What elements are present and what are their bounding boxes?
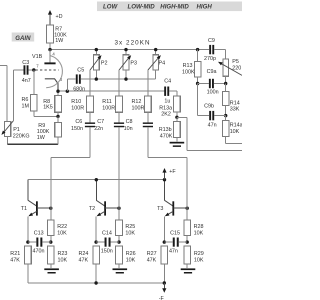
svg-text:4n7: 4n7: [22, 78, 31, 84]
svg-text:-F: -F: [159, 296, 165, 300]
svg-text:GAIN: GAIN: [15, 35, 31, 42]
svg-text:T3: T3: [157, 206, 163, 212]
svg-text:C7: C7: [97, 119, 104, 125]
svg-text:P2: P2: [101, 61, 108, 67]
svg-text:V1B: V1B: [32, 54, 43, 60]
svg-text:LOW: LOW: [103, 4, 118, 11]
svg-text:2K2: 2K2: [161, 111, 171, 117]
svg-text:1M: 1M: [22, 103, 30, 109]
svg-text:33K: 33K: [230, 107, 240, 113]
svg-text:C5: C5: [77, 68, 84, 74]
svg-text:100R: 100R: [132, 106, 145, 112]
svg-text:R26: R26: [126, 251, 136, 257]
svg-text:10n: 10n: [124, 126, 133, 132]
svg-text:10K: 10K: [194, 230, 204, 236]
svg-text:1W: 1W: [55, 38, 64, 44]
svg-text:R28: R28: [194, 224, 204, 230]
svg-text:1K5: 1K5: [43, 104, 53, 110]
svg-text:680n: 680n: [73, 86, 85, 92]
svg-text:R14: R14: [230, 100, 240, 106]
svg-text:3x 220KN: 3x 220KN: [115, 39, 151, 46]
svg-text:R11: R11: [102, 99, 112, 105]
svg-text:47K: 47K: [79, 258, 89, 264]
svg-text:HIGH: HIGH: [197, 4, 213, 11]
svg-text:R6: R6: [22, 97, 29, 103]
svg-text:10K: 10K: [58, 258, 68, 264]
svg-text:47n: 47n: [169, 249, 178, 255]
svg-text:P1: P1: [13, 127, 20, 133]
svg-text:R22: R22: [57, 224, 67, 230]
svg-text:10K: 10K: [125, 230, 135, 236]
svg-text:R21: R21: [10, 251, 20, 257]
svg-text:HIGH-MID: HIGH-MID: [160, 4, 189, 11]
svg-text:470n: 470n: [33, 249, 45, 255]
svg-text:47n: 47n: [208, 123, 217, 129]
svg-text:10K: 10K: [194, 258, 204, 264]
svg-text:P3: P3: [130, 61, 137, 67]
svg-text:100R: 100R: [71, 106, 84, 112]
svg-text:R13: R13: [183, 63, 193, 69]
svg-text:10K: 10K: [126, 258, 136, 264]
svg-text:100n: 100n: [207, 89, 219, 95]
svg-text:C4: C4: [164, 79, 171, 85]
svg-text:150n: 150n: [71, 126, 83, 132]
svg-text:C15: C15: [170, 231, 180, 237]
svg-text:10K: 10K: [57, 230, 67, 236]
svg-text:R12: R12: [132, 99, 142, 105]
svg-text:47K: 47K: [147, 258, 157, 264]
svg-text:+F: +F: [169, 169, 176, 175]
svg-text:C13: C13: [34, 231, 44, 237]
svg-text:R14a: R14a: [230, 123, 242, 129]
svg-text:22n: 22n: [94, 126, 103, 132]
svg-text:R27: R27: [147, 251, 157, 257]
svg-text:C14: C14: [102, 231, 112, 237]
svg-text:C9a: C9a: [207, 69, 217, 75]
svg-text:C8: C8: [126, 119, 133, 125]
svg-text:100R: 100R: [102, 106, 115, 112]
svg-text:R25: R25: [125, 224, 135, 230]
svg-text:C6: C6: [75, 119, 82, 125]
svg-text:P4: P4: [159, 61, 166, 67]
svg-text:C9: C9: [208, 38, 215, 44]
svg-text:T1: T1: [21, 206, 27, 212]
svg-text:LOW-MID: LOW-MID: [128, 4, 156, 11]
svg-text:220KG: 220KG: [13, 134, 30, 140]
svg-text:P5: P5: [232, 59, 239, 65]
svg-text:T2: T2: [89, 206, 95, 212]
svg-text:10K: 10K: [230, 129, 240, 135]
svg-text:R10: R10: [71, 99, 81, 105]
svg-text:R24: R24: [79, 251, 89, 257]
svg-text:270p: 270p: [204, 56, 216, 62]
svg-text:C3: C3: [22, 60, 29, 66]
svg-text:C9b: C9b: [204, 103, 214, 109]
svg-text:+D: +D: [56, 14, 63, 20]
svg-text:470K: 470K: [160, 133, 173, 139]
svg-text:R13b: R13b: [159, 127, 172, 133]
svg-text:R23: R23: [58, 251, 68, 257]
svg-text:150n: 150n: [101, 249, 113, 255]
svg-text:1u: 1u: [164, 98, 170, 104]
svg-text:R29: R29: [194, 251, 204, 257]
svg-text:47K: 47K: [10, 258, 20, 264]
svg-text:1W: 1W: [37, 135, 46, 141]
svg-text:100K: 100K: [182, 70, 195, 76]
